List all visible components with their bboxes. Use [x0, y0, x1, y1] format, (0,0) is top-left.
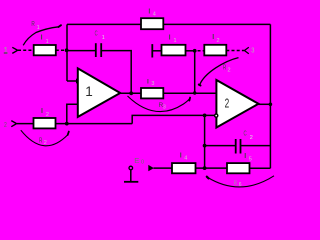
- svg-text:4: 4: [153, 12, 156, 18]
- resistor R7: [172, 163, 196, 173]
- wire dashed x to R1: [18, 49, 34, 51]
- wire C2 to right rail: [241, 145, 271, 147]
- svg-text:E: E: [134, 156, 139, 165]
- terminal post symbol: [129, 166, 133, 170]
- resistor R1: [34, 45, 56, 55]
- inverting circle op-amp2: [215, 114, 218, 117]
- input arrow x: [12, 47, 17, 53]
- resistor R4 top: [141, 18, 163, 29]
- arc under bottom row: [207, 176, 274, 187]
- svg-text:I: I: [147, 79, 149, 86]
- wire R7 to mid rail: [196, 167, 228, 169]
- node dot cap junction on output row: [129, 91, 133, 95]
- svg-text:I: I: [41, 34, 43, 41]
- wire cap C2 row: [205, 145, 236, 147]
- curved arrow to op-amp2 input: [200, 58, 239, 86]
- svg-text:2: 2: [44, 140, 47, 146]
- wire R5 to corner: [186, 50, 195, 52]
- svg-text:R: R: [39, 138, 42, 145]
- svg-text:2: 2: [46, 112, 49, 118]
- wire top feedback: [67, 23, 270, 25]
- resistor R5: [162, 45, 186, 56]
- svg-text:3: 3: [251, 48, 254, 55]
- wire tick to R5: [152, 50, 161, 52]
- arc under z row: [21, 130, 68, 146]
- arrow head left-pointing: [244, 47, 248, 53]
- svg-text:2: 2: [225, 95, 230, 110]
- node dot z junction: [65, 122, 69, 126]
- svg-text:I: I: [180, 152, 182, 159]
- wire arrow to R7: [154, 167, 173, 169]
- arc under output row: [128, 96, 190, 112]
- svg-text:6: 6: [239, 182, 242, 188]
- wire dashed R1 to node: [56, 49, 67, 51]
- svg-text:1: 1: [3, 45, 8, 55]
- wire dashed corner to R6: [198, 50, 205, 52]
- curved arrow R1 flow: [23, 27, 58, 46]
- capacitor C2: [235, 139, 237, 154]
- svg-text:2: 2: [4, 120, 7, 129]
- svg-text:1: 1: [37, 25, 40, 31]
- svg-text:1: 1: [174, 38, 177, 44]
- wire rail node A vertical: [66, 24, 68, 81]
- svg-text:C: C: [244, 131, 247, 138]
- wire cap C1 row: [67, 50, 96, 52]
- resistor R8 bottom right: [227, 163, 250, 173]
- input arrow z: [11, 121, 16, 127]
- svg-text:I: I: [244, 153, 246, 160]
- op-amp U1: [78, 68, 120, 117]
- input arrow filled bottom: [148, 165, 154, 171]
- svg-text:3: 3: [163, 105, 166, 111]
- svg-text:I: I: [41, 108, 43, 115]
- svg-text:0: 0: [141, 160, 144, 166]
- svg-text:C: C: [95, 31, 98, 38]
- wire op-amp1 output row: [120, 92, 216, 94]
- resistor R2: [34, 118, 56, 128]
- capacitor C1: [95, 43, 97, 57]
- svg-text:R: R: [31, 21, 34, 28]
- wire op-amp2 output to rail: [259, 103, 271, 105]
- node dot cap2 left: [203, 144, 207, 148]
- node dot mid rail bottom: [203, 166, 207, 170]
- svg-text:3: 3: [151, 81, 154, 87]
- svg-text:1: 1: [46, 39, 49, 45]
- op-amp U2: [216, 80, 258, 128]
- node dot corner: [193, 49, 197, 53]
- wire step up to op-amp1 lower input: [67, 104, 78, 123]
- node dot output rail: [269, 103, 273, 107]
- terminal tick top-right row: [151, 44, 153, 57]
- svg-text:4: 4: [184, 156, 187, 162]
- wire node A to op-amp 1 input: [67, 80, 79, 82]
- svg-text:5: 5: [249, 157, 252, 163]
- node dot mid rail top: [203, 114, 207, 118]
- wire right rail: [269, 24, 271, 168]
- svg-text:R: R: [223, 65, 226, 72]
- resistor R3 output row: [141, 88, 163, 98]
- svg-text:R: R: [234, 180, 237, 187]
- node dot at vertical junction: [193, 91, 196, 94]
- wire mid rail vertical: [204, 115, 206, 168]
- svg-text:2: 2: [217, 38, 220, 44]
- svg-text:1: 1: [102, 35, 105, 41]
- wire C1 to corner down to op-amp1 output: [101, 51, 131, 94]
- node A junction dot: [65, 48, 69, 52]
- svg-text:I: I: [212, 34, 214, 41]
- wire z to R2: [17, 123, 34, 125]
- svg-text:2: 2: [250, 135, 253, 141]
- wire vertical corner down to op-amp2 input row: [194, 51, 196, 93]
- wire dashed R6 to arrow: [226, 50, 244, 52]
- svg-text:I: I: [169, 35, 171, 42]
- svg-text:1: 1: [85, 84, 93, 99]
- wire R8 to right rail corner: [250, 167, 271, 169]
- wire R2 to junction: [56, 123, 133, 125]
- svg-text:2: 2: [228, 67, 231, 73]
- resistor R6: [204, 45, 226, 56]
- wire step to op-amp2 lower input: [132, 115, 214, 123]
- node dot op-amp1 inverting input: [76, 79, 81, 84]
- svg-text:I: I: [148, 9, 150, 16]
